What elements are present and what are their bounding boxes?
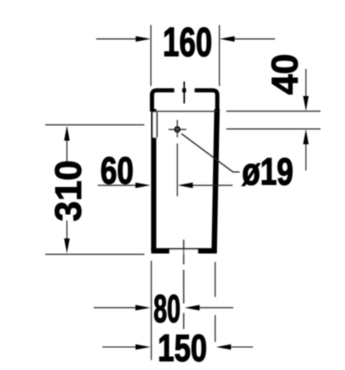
svg-text:150: 150 <box>158 328 207 370</box>
svg-text:80: 80 <box>153 287 180 330</box>
svg-text:310: 310 <box>48 160 89 221</box>
svg-text:160: 160 <box>163 20 212 66</box>
svg-text:ø19: ø19 <box>242 151 293 193</box>
svg-text:40: 40 <box>264 54 305 95</box>
svg-text:60: 60 <box>100 150 133 192</box>
